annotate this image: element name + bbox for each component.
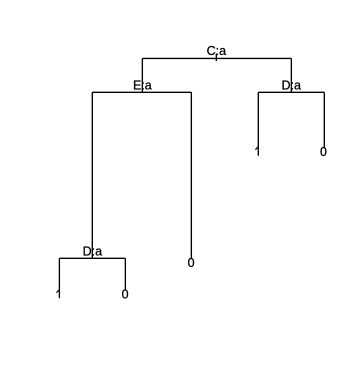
svg-text:D:a: D:a (281, 78, 301, 92)
svg-text:C:a: C:a (207, 44, 227, 58)
svg-text:0: 0 (188, 256, 195, 270)
svg-text:D:a: D:a (83, 244, 103, 258)
svg-text:0: 0 (122, 288, 129, 302)
svg-text:0: 0 (320, 145, 327, 159)
svg-text:E:a: E:a (133, 78, 152, 92)
